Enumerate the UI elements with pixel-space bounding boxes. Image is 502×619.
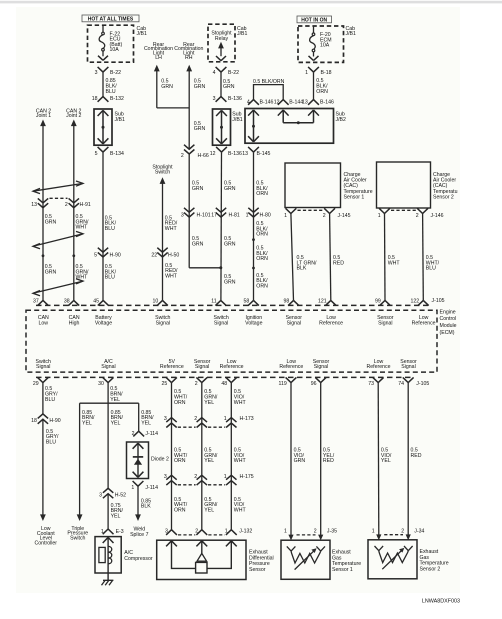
svg-text:Reference: Reference	[160, 364, 184, 370]
svg-text:Sensor 1: Sensor 1	[344, 194, 365, 200]
svg-text:1: 1	[101, 529, 104, 535]
svg-text:B-146: B-146	[260, 99, 274, 105]
connector B-145 pin 13	[248, 147, 259, 152]
connector H-101 pin 3	[184, 208, 194, 213]
svg-text:BLU: BLU	[45, 397, 55, 403]
wire 0.5 RED/WHT	[162, 183, 164, 300]
svg-text:2: 2	[194, 416, 197, 422]
connector B-146 pin 13	[308, 100, 319, 105]
label H-91	[50, 197, 68, 199]
svg-text:E-3: E-3	[116, 529, 124, 535]
svg-text:4: 4	[213, 70, 216, 76]
svg-text:5: 5	[95, 151, 98, 157]
svg-text:H-81: H-81	[229, 212, 240, 218]
svg-text:GRN: GRN	[223, 84, 235, 90]
svg-text:B-145: B-145	[257, 151, 271, 157]
svg-text:Switch: Switch	[155, 170, 170, 176]
wire 0.5 LT GRN/BLK	[291, 214, 294, 301]
node Weld Splice 7	[135, 514, 141, 521]
svg-text:2: 2	[181, 153, 184, 159]
connector H-66 pin 2	[184, 145, 194, 150]
svg-text:73: 73	[368, 381, 374, 387]
svg-text:1: 1	[224, 474, 227, 480]
svg-text:58: 58	[244, 298, 250, 304]
connector B-146 pin 4	[248, 100, 259, 105]
svg-text:GRN: GRN	[192, 241, 204, 247]
svg-text:2: 2	[323, 213, 326, 219]
svg-text:RED: RED	[323, 458, 334, 464]
EDP sensor element triangle	[197, 553, 207, 561]
connector J-114 pin 1	[133, 481, 144, 486]
wire 0.5 BRN/YEL	[107, 383, 109, 489]
svg-text:Exhaust: Exhaust	[249, 550, 268, 556]
ECM connector J-105 bottom dashed line	[36, 376, 412, 378]
svg-text:GRN: GRN	[194, 84, 206, 90]
wire CAN high	[73, 125, 75, 300]
svg-text:10A: 10A	[320, 43, 330, 49]
ECM pin 58 (Ignition Voltage)	[248, 300, 259, 305]
wire 0.5 GRN relay	[220, 72, 222, 97]
ECM pin 73 (Low Reference)	[373, 377, 384, 382]
svg-text:5: 5	[94, 253, 97, 259]
svg-text:J/B2: J/B2	[336, 117, 346, 123]
node Triple Pressure Switch	[77, 514, 83, 521]
label HOT AT ALL TIMES	[82, 15, 139, 22]
svg-text:ORN: ORN	[174, 400, 186, 406]
svg-text:Signal: Signal	[314, 364, 328, 370]
connector J-146 dashed line	[391, 209, 416, 211]
svg-text:10: 10	[153, 298, 159, 304]
sensor Charge Air Cooler (CAC) Temperature Sensor 1 box	[285, 163, 341, 208]
ECM pin 119 (Low Reference)	[286, 377, 297, 382]
svg-text:H-101: H-101	[197, 212, 211, 218]
connector J-145 dashed line	[298, 209, 324, 211]
svg-text:Splice 7: Splice 7	[130, 532, 149, 538]
svg-text:ORN: ORN	[316, 89, 328, 95]
connector J-145 pin 1	[286, 208, 297, 213]
svg-text:J-35: J-35	[327, 529, 337, 535]
wire 0.85 BLK/BLU	[102, 72, 104, 97]
svg-text:1: 1	[284, 213, 287, 219]
svg-text:4: 4	[247, 99, 250, 105]
connector H-175 pins 3 2 1	[166, 475, 176, 480]
svg-text:10A: 10A	[110, 47, 120, 53]
wire 0.5 WHT	[384, 214, 387, 301]
svg-text:YEL: YEL	[111, 421, 121, 427]
wire 0.75 BRN/YEL	[107, 494, 109, 529]
label HOT IN ON	[297, 16, 332, 23]
ECM pin 10 (Switch Signal)	[157, 300, 168, 305]
connector B-144 pin 12	[278, 100, 289, 105]
svg-text:1: 1	[246, 212, 249, 218]
svg-text:Exhaust: Exhaust	[332, 550, 351, 556]
svg-text:B-132: B-132	[110, 96, 124, 102]
svg-text:Reference: Reference	[319, 320, 343, 326]
svg-text:Signal: Signal	[156, 320, 170, 326]
ECM pin 98 (Sensor Signal)	[288, 300, 299, 305]
svg-text:H-175: H-175	[240, 474, 254, 480]
svg-text:Sensor: Sensor	[249, 567, 266, 573]
svg-text:WHT: WHT	[165, 273, 178, 279]
svg-text:B-22: B-22	[110, 70, 121, 76]
svg-text:J/B1: J/B1	[237, 31, 247, 37]
splice dot ign 1	[252, 238, 255, 241]
wire 0.5 VIO/GRN	[290, 383, 292, 536]
svg-text:J/B1: J/B1	[137, 31, 147, 37]
svg-text:3: 3	[181, 212, 184, 218]
A/C compressor coil	[108, 546, 112, 563]
svg-text:LH: LH	[155, 55, 162, 61]
svg-text:B-134: B-134	[110, 151, 124, 157]
ground	[102, 580, 114, 585]
svg-text:Signal: Signal	[214, 320, 228, 326]
svg-text:Voltage: Voltage	[95, 320, 112, 326]
sensor Exhaust Differential Pressure Sensor box	[157, 540, 246, 579]
ECM pin 45 (Battery Voltage)	[98, 300, 109, 305]
svg-text:Temperature: Temperature	[332, 561, 361, 567]
svg-text:45: 45	[93, 298, 99, 304]
ECM pin 29 (Switch Signal)	[38, 377, 49, 382]
wire 0.5 GRN RH	[188, 71, 190, 149]
connector B-136 pin 3	[216, 97, 227, 102]
ECM pin 99 (Sensor Signal)	[380, 300, 391, 305]
svg-text:Temperatu: Temperatu	[433, 189, 458, 195]
connector H-50 pin 22	[157, 248, 167, 253]
svg-text:Joint 2: Joint 2	[66, 113, 81, 119]
svg-text:BLK: BLK	[141, 504, 151, 510]
wire 0.5 GRY/BLU	[42, 383, 44, 414]
splice dots CAN	[42, 254, 45, 257]
connector J-145 pin 2	[324, 208, 335, 213]
ECM pin 122 (Low Reference)	[418, 300, 429, 305]
svg-text:122: 122	[410, 298, 419, 304]
svg-text:Signal: Signal	[287, 320, 301, 326]
wire 0.5 WHT/BLU	[422, 214, 425, 301]
svg-text:WHT: WHT	[388, 260, 401, 266]
svg-text:Reference: Reference	[412, 320, 436, 326]
connector H-90 pin 5	[98, 248, 108, 253]
connector B-22 pin 3	[98, 67, 109, 72]
wire branch junction	[80, 402, 139, 404]
wire 0.5 RED egt2	[407, 383, 409, 536]
EDP sensor element square	[196, 562, 207, 573]
sensor Charge Air Cooler (CAC) Temperature Sensor 2 box	[377, 162, 431, 208]
svg-text:1: 1	[372, 528, 375, 534]
wire CAN low	[42, 125, 44, 300]
svg-text:RED: RED	[333, 260, 344, 266]
svg-text:ORN: ORN	[256, 256, 268, 262]
wire 0.85 BRN/YEL right branch	[138, 403, 140, 431]
svg-text:GRN: GRN	[224, 241, 236, 247]
sensor Exhaust Gas Temperature Sensor 2 box	[368, 540, 417, 579]
svg-text:Weld: Weld	[133, 526, 145, 532]
junction block Sub J/B1 left	[94, 109, 112, 145]
svg-text:1: 1	[131, 485, 134, 491]
svg-text:1: 1	[225, 528, 228, 534]
svg-text:Differential: Differential	[249, 555, 274, 561]
svg-text:1: 1	[378, 213, 381, 219]
svg-text:BLK: BLK	[297, 266, 307, 272]
svg-text:ORN: ORN	[174, 508, 186, 514]
svg-text:96: 96	[311, 381, 317, 387]
svg-text:Sensor 1: Sensor 1	[332, 567, 353, 573]
svg-text:H-173: H-173	[240, 416, 254, 422]
ECM pin 11 (Switch Signal)	[215, 300, 226, 305]
svg-text:B-144: B-144	[289, 99, 303, 105]
svg-text:2: 2	[401, 528, 404, 534]
svg-text:3: 3	[164, 416, 167, 422]
svg-text:Controller: Controller	[35, 540, 58, 546]
svg-text:2: 2	[65, 202, 68, 208]
svg-text:18: 18	[92, 96, 98, 102]
svg-text:Reference: Reference	[220, 364, 244, 370]
diode Diode 2 box	[127, 442, 149, 479]
connector E-3 pin 1	[103, 529, 114, 534]
svg-text:Signal: Signal	[195, 364, 209, 370]
svg-text:GRN: GRN	[224, 186, 236, 192]
svg-text:J-34: J-34	[414, 528, 424, 534]
connector J-146 pin 2	[417, 208, 428, 213]
connector H-81 pin 17	[216, 208, 226, 213]
splice dot ign 2	[252, 267, 255, 270]
svg-text:Exhaust: Exhaust	[420, 549, 439, 555]
connector H-90 pin 18	[38, 414, 48, 419]
svg-text:J-105: J-105	[416, 381, 429, 387]
fuse block Cab J/B1 (F-20) dashed box	[298, 26, 344, 62]
svg-text:BLU: BLU	[105, 226, 115, 232]
svg-text:BLU: BLU	[426, 266, 436, 272]
wire 0.5 GRN LH	[156, 71, 158, 108]
svg-text:Air Cooler: Air Cooler	[344, 178, 367, 184]
wire 0.5 RED	[330, 214, 331, 301]
twisted pair crossover 1	[33, 183, 83, 191]
svg-text:WHT: WHT	[76, 225, 89, 231]
svg-text:RH: RH	[185, 55, 193, 61]
svg-text:Sensor 2: Sensor 2	[433, 194, 454, 200]
wire 0.5 YEL/RED	[320, 383, 322, 536]
svg-text:18: 18	[31, 418, 37, 424]
svg-text:BLU: BLU	[105, 275, 115, 281]
svg-text:2: 2	[416, 213, 419, 219]
module Engine Control Module (ECM) dashed box	[26, 310, 437, 372]
svg-text:ORN: ORN	[256, 284, 268, 290]
svg-text:37: 37	[33, 298, 39, 304]
svg-text:Signal: Signal	[36, 364, 50, 370]
connector B-22 pin 4	[216, 67, 227, 72]
svg-text:RED: RED	[411, 453, 422, 459]
wire 0.5 GRY/BLU lower	[42, 419, 44, 515]
EGT2 thermistor	[375, 546, 384, 551]
svg-text:Control: Control	[440, 316, 457, 322]
svg-text:YEL: YEL	[82, 421, 92, 427]
ECM pin 74 (Sensor Signal)	[403, 377, 414, 382]
svg-text:B-136: B-136	[228, 151, 242, 157]
svg-text:WHT: WHT	[234, 400, 247, 406]
svg-text:3: 3	[99, 492, 102, 498]
svg-text:Relay: Relay	[215, 36, 229, 42]
ECM pin 48 (Low Reference)	[226, 377, 237, 382]
svg-text:1: 1	[284, 529, 287, 535]
svg-text:99: 99	[375, 298, 381, 304]
ECM pin 38 (CAN High)	[68, 300, 79, 305]
connector B-136 pin 12	[216, 147, 227, 152]
svg-text:22: 22	[151, 253, 157, 259]
svg-text:GRN: GRN	[45, 269, 57, 275]
svg-text:YEL: YEL	[381, 458, 391, 464]
svg-text:GRN: GRN	[194, 126, 206, 132]
svg-text:J-105: J-105	[432, 298, 445, 304]
A/C compressor clutch element	[99, 547, 105, 562]
svg-text:B-22: B-22	[228, 70, 239, 76]
svg-text:GRN: GRN	[224, 279, 236, 285]
svg-text:29: 29	[33, 381, 39, 387]
svg-text:J-146: J-146	[431, 213, 444, 219]
svg-text:J/B1: J/B1	[346, 31, 356, 37]
connector B-134 pin 5	[98, 147, 109, 152]
svg-text:13: 13	[31, 202, 37, 208]
svg-text:LNWA8DXF003: LNWA8DXF003	[422, 599, 460, 605]
svg-text:BLU: BLU	[46, 440, 56, 446]
svg-text:J-114: J-114	[145, 431, 158, 437]
relay contact arrow	[218, 42, 224, 49]
svg-text:BLU: BLU	[106, 89, 116, 95]
sensor Exhaust Gas Temperature Sensor 1 box	[281, 540, 330, 579]
svg-text:Switch: Switch	[70, 535, 85, 541]
node Low Coolant Level Controller	[40, 514, 46, 521]
svg-text:H-50: H-50	[168, 253, 179, 259]
svg-text:1: 1	[224, 416, 227, 422]
motor A/C Compressor box	[95, 537, 121, 573]
wire 5V reference / sensor signal / low reference columns	[171, 383, 173, 530]
wire 0.5 VIO/YEL	[377, 383, 380, 536]
connector B-132 pin 18	[98, 97, 109, 102]
wire 0.5 BLK/ORN ignition voltage	[253, 152, 255, 300]
svg-text:17: 17	[211, 212, 217, 218]
fuse F-22 ECU (Batt) 10A	[102, 25, 104, 32]
svg-text:B-146: B-146	[320, 99, 334, 105]
svg-text:WHT: WHT	[234, 508, 247, 514]
wire 0.5 BLK/BLU battery voltage	[102, 152, 104, 300]
connector H-52 pin 3	[103, 488, 113, 493]
EGT1 thermistor	[287, 546, 296, 551]
ECM pin 25 (5V Reference)	[166, 377, 177, 382]
svg-text:48: 48	[221, 381, 227, 387]
twisted pair crossover 3	[33, 281, 83, 293]
svg-text:ORN: ORN	[256, 232, 268, 238]
svg-text:Signal: Signal	[401, 364, 415, 370]
svg-text:ORN: ORN	[174, 458, 186, 464]
svg-text:3: 3	[213, 96, 216, 102]
svg-text:38: 38	[64, 298, 70, 304]
fuse F-20 ECM 10A	[313, 26, 315, 33]
svg-text:Low: Low	[39, 320, 49, 326]
svg-text:119: 119	[279, 381, 287, 387]
junction block Sub J/B1 right	[213, 109, 231, 145]
diode symbol	[133, 456, 143, 458]
svg-text:98: 98	[284, 298, 290, 304]
svg-text:Joint 1: Joint 1	[36, 113, 51, 119]
svg-text:WHT: WHT	[165, 226, 178, 232]
svg-text:J-132: J-132	[239, 528, 252, 534]
svg-text:HOT IN ON: HOT IN ON	[301, 17, 327, 23]
svg-text:J-114: J-114	[145, 485, 158, 491]
svg-text:H-90: H-90	[110, 253, 121, 259]
wire 0.5 GRN to H-101	[188, 154, 190, 268]
svg-text:HOT AT ALL TIMES: HOT AT ALL TIMES	[88, 16, 134, 22]
connector J-114 pin 2	[133, 431, 144, 436]
svg-text:74: 74	[398, 381, 404, 387]
ECM pin 121 (Low Reference)	[325, 300, 336, 305]
svg-text:25: 25	[162, 381, 168, 387]
svg-text:Diode 2: Diode 2	[151, 456, 169, 462]
connector H-173 pins 3 2 1	[166, 418, 176, 423]
connector H-91 pin 2	[69, 198, 79, 203]
svg-text:GRN: GRN	[45, 219, 57, 225]
svg-text:1: 1	[305, 70, 308, 76]
connector H-91 pin 13	[38, 198, 48, 203]
relay Stoplight Relay dashed box Cab J/B1	[208, 24, 235, 62]
svg-text:YEL: YEL	[110, 397, 120, 403]
ECM pin 37 (CAN Low)	[38, 300, 49, 305]
svg-text:H-66: H-66	[198, 153, 209, 159]
twisted pair crossover 2	[33, 234, 83, 247]
svg-text:GRN: GRN	[192, 186, 204, 192]
svg-text:Sensor 2: Sensor 2	[420, 566, 441, 572]
svg-text:121: 121	[318, 298, 327, 304]
svg-text:High: High	[69, 320, 80, 326]
svg-text:Engine: Engine	[440, 309, 456, 315]
ECM pin 2 (Sensor Signal)	[196, 377, 207, 382]
svg-text:Module: Module	[440, 323, 457, 329]
svg-text:Gas: Gas	[332, 555, 342, 561]
svg-text:(CAC): (CAC)	[433, 183, 448, 189]
svg-text:YEL: YEL	[204, 458, 214, 464]
svg-text:Signal: Signal	[378, 320, 392, 326]
svg-text:2: 2	[132, 431, 135, 437]
wire 0.5 GRN switch signal	[220, 152, 223, 300]
svg-text:11: 11	[211, 298, 216, 304]
ECM pin 96 (Sensor Signal)	[315, 377, 326, 382]
svg-text:12: 12	[210, 151, 216, 157]
svg-text:A/C: A/C	[124, 550, 133, 556]
svg-text:Reference: Reference	[367, 364, 391, 370]
svg-text:Temperature: Temperature	[420, 561, 449, 567]
wire 0.85 BRN/YEL left branch	[79, 403, 81, 515]
svg-text:B-18: B-18	[321, 70, 332, 76]
svg-text:12: 12	[274, 99, 280, 105]
junction block Sub J/B2	[245, 109, 334, 144]
svg-text:H-91: H-91	[80, 202, 91, 208]
svg-text:H-90: H-90	[49, 418, 60, 424]
svg-text:3: 3	[165, 528, 168, 534]
svg-text:Voltage: Voltage	[245, 320, 262, 326]
svg-text:2: 2	[195, 528, 198, 534]
svg-text:Charge: Charge	[433, 172, 450, 178]
svg-text:YEL: YEL	[204, 508, 214, 514]
svg-text:YEL: YEL	[204, 400, 214, 406]
svg-text:ORN: ORN	[256, 191, 268, 197]
fuse block Cab J/B1 (F-22) dashed box	[88, 25, 134, 62]
svg-text:13: 13	[242, 151, 248, 157]
svg-text:YEL: YEL	[141, 421, 151, 427]
svg-text:Charge: Charge	[344, 172, 361, 178]
connector J-146 pin 1	[379, 208, 390, 213]
svg-text:B-136: B-136	[228, 96, 242, 102]
svg-text:(ECM): (ECM)	[440, 330, 455, 336]
svg-text:3: 3	[95, 70, 98, 76]
svg-text:GRN: GRN	[294, 458, 306, 464]
svg-text:GRN: GRN	[161, 84, 173, 90]
